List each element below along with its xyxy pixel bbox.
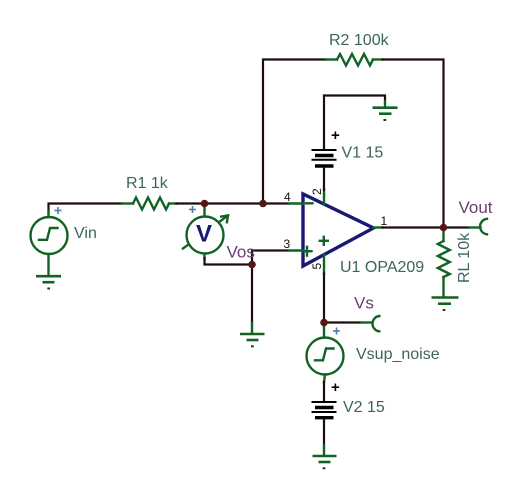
battery V2 xyxy=(312,402,337,418)
svg-text:V: V xyxy=(196,221,212,248)
voltmeter Vos meter xyxy=(183,216,228,254)
op-amp U1 triangle xyxy=(303,194,374,266)
voltmeter top stub xyxy=(203,206,205,217)
resistor R1 1k xyxy=(122,198,177,210)
svg-text:R1 1k: R1 1k xyxy=(126,175,169,192)
node junction at feedback xyxy=(259,200,267,208)
ground bottom xyxy=(313,456,337,468)
minus sign inverting input xyxy=(306,202,313,204)
svg-text:4: 4 xyxy=(284,190,291,204)
wire feedback left vertical xyxy=(263,60,326,204)
svg-text:U1 OPA209: U1 OPA209 xyxy=(340,259,424,276)
source Vsup_noise xyxy=(307,338,344,375)
pin 5 lead xyxy=(323,255,325,274)
wire pin5 down to Vs node xyxy=(323,274,325,323)
node + plus of Vin xyxy=(55,207,62,214)
svg-text:V1 15: V1 15 xyxy=(342,145,384,162)
wire pin1 to output node xyxy=(383,226,444,228)
ground at V1 xyxy=(373,100,398,120)
wire R1 to opamp pin4 xyxy=(177,202,289,204)
ground below Vin xyxy=(36,276,61,288)
resistor R2 100k xyxy=(326,54,383,66)
svg-text:3: 3 xyxy=(284,237,291,251)
wire output to Vout pin xyxy=(444,226,470,228)
svg-text:Vsup_noise: Vsup_noise xyxy=(356,346,440,363)
pin 3 lead xyxy=(289,249,304,251)
source Vin xyxy=(31,217,68,254)
wire Vs node to testpoint xyxy=(324,321,361,323)
node junction at voltmeter top xyxy=(201,200,209,208)
wire green stub to bottom ground xyxy=(323,445,325,455)
svg-text:+: + xyxy=(331,379,340,396)
svg-text:2: 2 xyxy=(310,188,324,195)
plus of Vsup_noise xyxy=(333,328,340,335)
wire battery V2 bottom xyxy=(323,420,325,445)
wire green stub to ground xyxy=(251,323,253,334)
wire Vin bottom stub xyxy=(47,254,49,276)
svg-text:V2 15: V2 15 xyxy=(343,399,385,416)
testpoint Vout xyxy=(470,219,488,235)
svg-text:Vos: Vos xyxy=(227,243,255,262)
ground below RL xyxy=(432,298,459,311)
plus of voltmeter xyxy=(189,206,196,213)
wire voltmeter bottom stub xyxy=(203,254,205,259)
wire battery V1 top xyxy=(324,96,385,150)
plus sign noninverting input xyxy=(303,247,312,256)
pin 2 lead xyxy=(323,189,325,205)
svg-text:Vs: Vs xyxy=(354,294,374,313)
wire Vsup bottom to V2 xyxy=(324,375,325,383)
wire Vs node down xyxy=(323,325,325,338)
battery V1 xyxy=(312,150,337,166)
node output junction xyxy=(440,224,448,232)
testpoint Vs xyxy=(361,316,379,331)
wire Vin top stub xyxy=(47,211,49,217)
node junction Vs xyxy=(320,319,328,327)
svg-text:5: 5 xyxy=(310,263,324,270)
plus sign supply xyxy=(320,237,328,245)
resistor RL 10k xyxy=(438,228,450,296)
wire voltmeter bottom xyxy=(205,258,253,265)
svg-text:RL 10k: RL 10k xyxy=(456,232,473,283)
wire to battery V2 xyxy=(323,382,325,402)
wire junction down to ground xyxy=(251,265,253,323)
svg-text:Vout: Vout xyxy=(459,198,493,217)
wire R2 to output node xyxy=(383,60,444,228)
svg-text:1: 1 xyxy=(381,214,388,228)
wire junction up to pin3 xyxy=(252,251,289,265)
svg-text:+: + xyxy=(331,127,340,144)
ground below Vos node xyxy=(240,334,265,346)
svg-text:R2 100k: R2 100k xyxy=(329,32,390,49)
pin 4 lead xyxy=(289,202,304,204)
pin 1 lead xyxy=(374,226,383,228)
svg-text:Vin: Vin xyxy=(74,225,97,242)
node junction Vos xyxy=(248,261,256,269)
wire battery V1 bottom to pin2 xyxy=(323,168,325,190)
wire Vin top corner to R1 xyxy=(49,204,123,213)
